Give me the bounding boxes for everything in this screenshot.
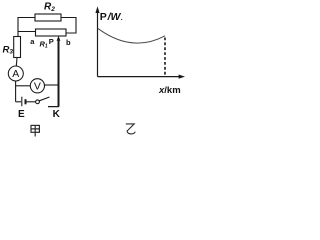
battery E: long plate [21,97,23,107]
power curve [98,28,165,43]
svg-text:b: b [66,38,71,47]
wire: voltmeter to slider wire [44,84,58,86]
svg-text:E: E [18,109,25,120]
switch lever (open) [39,97,49,101]
voltmeter V [30,79,44,93]
wire: switch right terminal to slider wire corner [48,104,59,107]
wire: R3 to ammeter [15,58,18,67]
resistor R2 box [35,14,61,21]
svg-text:P/W.: P/W. [100,11,123,23]
wire: branch to voltmeter [16,85,31,87]
resistor R3 box [14,37,21,58]
wire: R2 right around to rheostat b terminal [61,18,76,34]
dashed line [164,38,166,77]
svg-text:K: K [53,109,61,120]
label yi (乙) drawn as strokes [126,124,135,134]
slider P arrow wire (thick) [58,39,60,107]
wire: bottom left to battery [16,101,21,103]
switch pivot circle [36,100,40,104]
wire: battery to switch pivot [27,101,36,103]
x-axis arrowhead [179,75,185,79]
slider arrowhead [57,36,61,41]
graph y-axis [97,10,99,77]
svg-text:x/km: x/km [158,85,181,96]
label jia (甲) drawn as strokes [31,125,39,136]
svg-text:A: A [12,68,19,80]
svg-text:V: V [34,81,41,93]
y-axis arrowhead [95,6,99,13]
wire: ammeter down to bottom-left corner [15,81,17,102]
svg-text:P: P [49,37,54,46]
wire: left vertical with branch corners to R2 and rheostat [18,18,36,37]
battery E: short thick plate [25,99,27,104]
graph x-axis [98,76,182,78]
ammeter A [8,66,23,81]
rheostat R1 box [36,29,67,36]
